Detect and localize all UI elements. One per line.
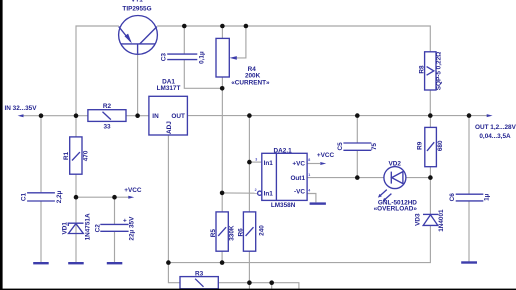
wire C2 branch bbox=[114, 197, 116, 224]
svg-text:8: 8 bbox=[308, 158, 310, 162]
node stub junction x271.7 bbox=[269, 280, 274, 285]
capacitor C6 1u bbox=[456, 194, 484, 201]
wire R4 bottom lead down to R5, crossing OUT rail bbox=[221, 77, 223, 212]
wire VD3 cathode lead bbox=[429, 178, 431, 215]
svg-text:680: 680 bbox=[437, 140, 444, 151]
svg-text:In1: In1 bbox=[264, 160, 274, 167]
wire VD3 anode down and bottom rail to ADJ node bbox=[168, 225, 430, 262]
svg-text:OUT: OUT bbox=[171, 113, 185, 120]
wire C2 bottom to ground bbox=[114, 232, 116, 263]
svg-text:IN: IN bbox=[152, 113, 159, 120]
frame bottom border bbox=[0, 289, 516, 290]
regulator DA1 LM317T bbox=[149, 96, 188, 135]
wire R3 right lead to stubs bbox=[218, 283, 299, 289]
node R4 top rail junction bbox=[220, 24, 225, 29]
svg-text:R1: R1 bbox=[63, 151, 70, 160]
wire transistor base lead down to IN node bbox=[137, 52, 139, 116]
wire R4 top lead bbox=[221, 26, 223, 38]
wire R8 bottom lead to OUT rail bbox=[429, 90, 431, 116]
ground DA2 -VC bbox=[310, 202, 326, 204]
svg-text:In1: In1 bbox=[264, 191, 274, 198]
svg-text:R3: R3 bbox=[195, 271, 204, 278]
resistor R8 SQP-5 0.22 bbox=[425, 52, 436, 90]
wire C6 bottom to ground bbox=[468, 201, 470, 262]
svg-text:0,04...3,5A: 0,04...3,5A bbox=[479, 133, 511, 140]
svg-text:33: 33 bbox=[103, 124, 111, 131]
wire C6 branch from OUT rail bbox=[468, 116, 470, 194]
svg-text:«CURRENT»: «CURRENT» bbox=[231, 79, 270, 86]
node IN-C1 junction bbox=[39, 113, 44, 118]
svg-text:LM358N: LM358N bbox=[271, 202, 296, 209]
wire C1 branch down from IN node bbox=[40, 116, 42, 193]
svg-text:+: + bbox=[123, 218, 127, 225]
svg-text:1N4001: 1N4001 bbox=[438, 209, 445, 232]
input terminal IN arrow bbox=[18, 114, 24, 117]
svg-text:1µ: 1µ bbox=[484, 193, 491, 201]
diode VD3 1N4001 bbox=[423, 214, 438, 225]
node R4 wiper rail junction bbox=[244, 24, 249, 29]
node In1- junction bbox=[220, 191, 225, 196]
wire C5 bottom lead to Out1 node bbox=[356, 151, 358, 178]
wire R9 top lead bbox=[429, 116, 431, 128]
svg-text:R2: R2 bbox=[103, 103, 112, 110]
wire DA2 In1+ lead from x249 branch bbox=[248, 116, 250, 212]
node R6-R3 junction bbox=[247, 280, 252, 285]
svg-text:VT1: VT1 bbox=[131, 0, 143, 4]
resistor R6 240 bbox=[243, 212, 255, 251]
node Out1-C5 junction bbox=[355, 175, 360, 180]
wire stub below node x271.7 bbox=[271, 283, 273, 289]
wire R1 branch from IN node bbox=[75, 116, 77, 137]
wire C3 bottom lead to node under R4 bbox=[184, 60, 222, 88]
svg-text:200K: 200K bbox=[245, 72, 261, 79]
svg-text:1: 1 bbox=[308, 173, 310, 177]
node LED-R9-VD3 junction bbox=[428, 175, 433, 180]
wire LED to R9/VD3 node bbox=[406, 177, 431, 179]
wire top rail left segment to transistor emitter bbox=[76, 26, 119, 116]
+VCC terminal arrow left bbox=[128, 196, 134, 199]
node C2-VCC junction bbox=[112, 195, 117, 200]
wire top rail right segment from transistor collector to R8 bbox=[157, 26, 430, 52]
node C3 top rail junction bbox=[182, 24, 187, 29]
svg-text:3: 3 bbox=[255, 158, 257, 162]
svg-text:0,1µ: 0,1µ bbox=[198, 51, 205, 64]
+VCC terminal arrow at DA2 pin8 bbox=[320, 162, 326, 165]
node In1+ junction bbox=[247, 160, 252, 165]
wire C1 bottom to ground bbox=[40, 201, 42, 262]
wire OUT rail from DA1 OUT to output stub bbox=[187, 115, 488, 117]
capacitor C5 75 bbox=[343, 143, 371, 150]
node IN-R1 junction bbox=[74, 113, 79, 118]
ground VD1 bbox=[68, 262, 84, 264]
wire DA2 Out1 to LED bbox=[307, 177, 384, 179]
svg-text:C5: C5 bbox=[337, 142, 344, 151]
wire IN line left segment with input stub bbox=[20, 115, 88, 117]
svg-text:C2: C2 bbox=[94, 224, 101, 233]
wire R4 wiper to top rail bbox=[232, 26, 246, 58]
svg-text:Out1: Out1 bbox=[290, 175, 305, 182]
node R1-VCC junction bbox=[74, 195, 79, 200]
svg-text:330K: 330K bbox=[228, 225, 235, 241]
svg-text:470: 470 bbox=[83, 150, 90, 161]
ground C2 bbox=[107, 262, 123, 264]
node OUT rail C6 junction bbox=[467, 113, 472, 118]
svg-text:IN 32...35V: IN 32...35V bbox=[5, 105, 38, 112]
resistor R5 330K bbox=[216, 212, 228, 251]
node OUT rail R8/R9 junction bbox=[428, 113, 433, 118]
svg-text:OUT 1,2...28V: OUT 1,2...28V bbox=[475, 124, 516, 131]
op-amp DA2.1 LM358N bbox=[258, 153, 307, 200]
svg-text:SQP-5 0,22Ω: SQP-5 0,22Ω bbox=[435, 52, 442, 91]
svg-text:R8: R8 bbox=[418, 65, 425, 74]
frame left border bbox=[0, 0, 3, 290]
svg-text:75: 75 bbox=[371, 143, 378, 151]
wire DA1 ADJ lead down to bottom rail and R3 bbox=[168, 135, 180, 283]
svg-text:VD2: VD2 bbox=[388, 161, 401, 168]
capacitor C2 22u 35V bbox=[100, 224, 128, 231]
svg-text:TIP2955G: TIP2955G bbox=[122, 5, 151, 12]
svg-text:DA2.1: DA2.1 bbox=[274, 148, 293, 155]
resistor R1 470 bbox=[70, 137, 82, 174]
svg-text:R5: R5 bbox=[210, 229, 217, 238]
svg-text:LM317T: LM317T bbox=[157, 85, 181, 92]
svg-text:C3: C3 bbox=[161, 53, 168, 62]
node R5 bottom rail junction bbox=[220, 260, 225, 265]
resistor R2 33 bbox=[88, 110, 126, 122]
wire R9 bottom lead to LED node bbox=[429, 167, 431, 178]
ground C1 bbox=[33, 262, 49, 264]
wire C3 top lead bbox=[183, 26, 185, 54]
zener diode VD1 1N4751A bbox=[68, 223, 83, 233]
capacitor C3 0.1u bbox=[167, 54, 197, 60]
svg-text:+VCC: +VCC bbox=[317, 152, 335, 159]
wire R2 right lead to DA1 IN pin bbox=[126, 115, 149, 117]
capacitor C1 2.2u bbox=[27, 193, 55, 201]
svg-text:240: 240 bbox=[258, 225, 265, 236]
svg-text:VD1: VD1 bbox=[62, 222, 69, 235]
svg-text:2,2µ: 2,2µ bbox=[56, 190, 63, 203]
node OUT rail C5 junction bbox=[355, 113, 360, 118]
wire +VCC rail bbox=[76, 196, 130, 198]
svg-text:-VC: -VC bbox=[294, 188, 305, 195]
svg-text:C6: C6 bbox=[449, 193, 456, 202]
ground C6 bbox=[461, 261, 477, 263]
node OUT rail x249 junction bbox=[247, 113, 252, 118]
svg-text:+VCC: +VCC bbox=[124, 187, 142, 194]
wire DA2 -VC pin to ground bbox=[307, 194, 316, 203]
wire DA2 +VC pin bbox=[307, 163, 320, 165]
wire R6 bottom lead crossing rail to R3 output line bbox=[248, 251, 250, 288]
svg-text:+VC: +VC bbox=[292, 161, 305, 168]
svg-text:2: 2 bbox=[255, 188, 257, 192]
LED VD2 GNL-5012HD bbox=[378, 167, 406, 202]
svg-text:1N4751A: 1N4751A bbox=[84, 213, 91, 240]
svg-text:R9: R9 bbox=[417, 141, 424, 150]
svg-text:«OVERLOAD»: «OVERLOAD» bbox=[374, 206, 418, 213]
wire In1+ pin bbox=[249, 161, 261, 163]
node ADJ bottom rail junction bbox=[166, 260, 171, 265]
output terminal OUT arrow bbox=[487, 114, 493, 117]
wire R1 bottom through VD1 to ground bbox=[75, 174, 77, 262]
resistor R9 680 bbox=[425, 127, 437, 166]
node C3-R4 bottom junction bbox=[220, 86, 225, 91]
svg-text:4: 4 bbox=[308, 188, 310, 192]
wire R5 bottom lead to bottom rail bbox=[221, 251, 223, 262]
resistor R4 200K potentiometer bbox=[216, 38, 237, 77]
resistor R3 bbox=[180, 277, 218, 289]
svg-text:22µ 35V: 22µ 35V bbox=[129, 216, 136, 241]
node base junction bbox=[135, 113, 140, 118]
svg-text:C1: C1 bbox=[20, 192, 27, 201]
wire C5 top lead from OUT rail bbox=[356, 116, 358, 143]
svg-text:ADJ: ADJ bbox=[166, 121, 173, 134]
transistor VT1 TIP2955G bbox=[119, 16, 158, 55]
svg-text:VD3: VD3 bbox=[414, 213, 421, 226]
svg-text:R6: R6 bbox=[237, 228, 244, 237]
wire In1- pin from R5/R6 node bbox=[222, 192, 258, 194]
